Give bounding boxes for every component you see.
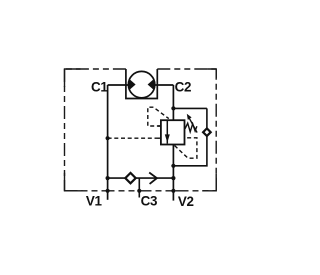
relief valve RV1 adjustable spring: [185, 123, 197, 132]
node junction V2-rail: [171, 176, 175, 180]
motor M1 bracket: [126, 69, 157, 99]
wire C2 horizontal from motor: [154, 84, 174, 86]
motor M1 right triangle: [148, 79, 155, 91]
svg-text:V1: V1: [86, 194, 103, 209]
wire C3 drop: [138, 178, 140, 197]
svg-text:C2: C2: [175, 80, 192, 95]
relief valve RV1 left pilot stubs: [158, 126, 161, 138]
svg-text:C3: C3: [141, 193, 158, 208]
relief valve RV1 body: [161, 120, 185, 144]
node junction V2-bypass: [171, 164, 175, 168]
motor M1 circle: [128, 71, 154, 97]
wire bypass vertical lower: [173, 136, 207, 166]
manifold enclosure boundary (dash-dot frame): [65, 69, 217, 191]
spring drain loop lower-right (dashed): [175, 138, 197, 158]
motor M1 left triangle: [129, 79, 136, 91]
wire C1 horizontal to motor: [108, 84, 130, 86]
svg-text:V2: V2: [178, 194, 194, 209]
node junction C1-pilot: [106, 136, 110, 140]
relief valve RV1 adjustment arrow: [189, 118, 197, 132]
node C3 at boundary: [137, 189, 141, 193]
relief valve RV1 internal flow arrow: [166, 120, 168, 143]
wire V2 vertical below valve: [172, 145, 174, 201]
wire bottom rail V1 to V2: [108, 177, 174, 179]
node V2 at boundary: [171, 189, 175, 193]
node junction C2-branch: [171, 106, 175, 110]
pilot line from C1 (dashed): [108, 137, 161, 139]
orifice D2 (diamond on bypass line): [203, 128, 211, 136]
orifice D1 (diamond on bottom rail): [125, 173, 135, 183]
wire branch to bypass: top horizontal: [173, 107, 207, 109]
node junction V1-rail: [106, 176, 110, 180]
flow direction chevron on bottom rail: [149, 173, 157, 184]
boundary corner ticks: [65, 69, 217, 191]
wire C1/V1 vertical: [107, 85, 109, 200]
node V1 at boundary: [106, 189, 110, 193]
svg-text:C1: C1: [91, 79, 108, 94]
pilot vent loop upper-left (dashed): [148, 107, 169, 126]
wire bypass vertical upper: [206, 108, 208, 128]
wire C2 vertical to valve: [172, 85, 174, 120]
